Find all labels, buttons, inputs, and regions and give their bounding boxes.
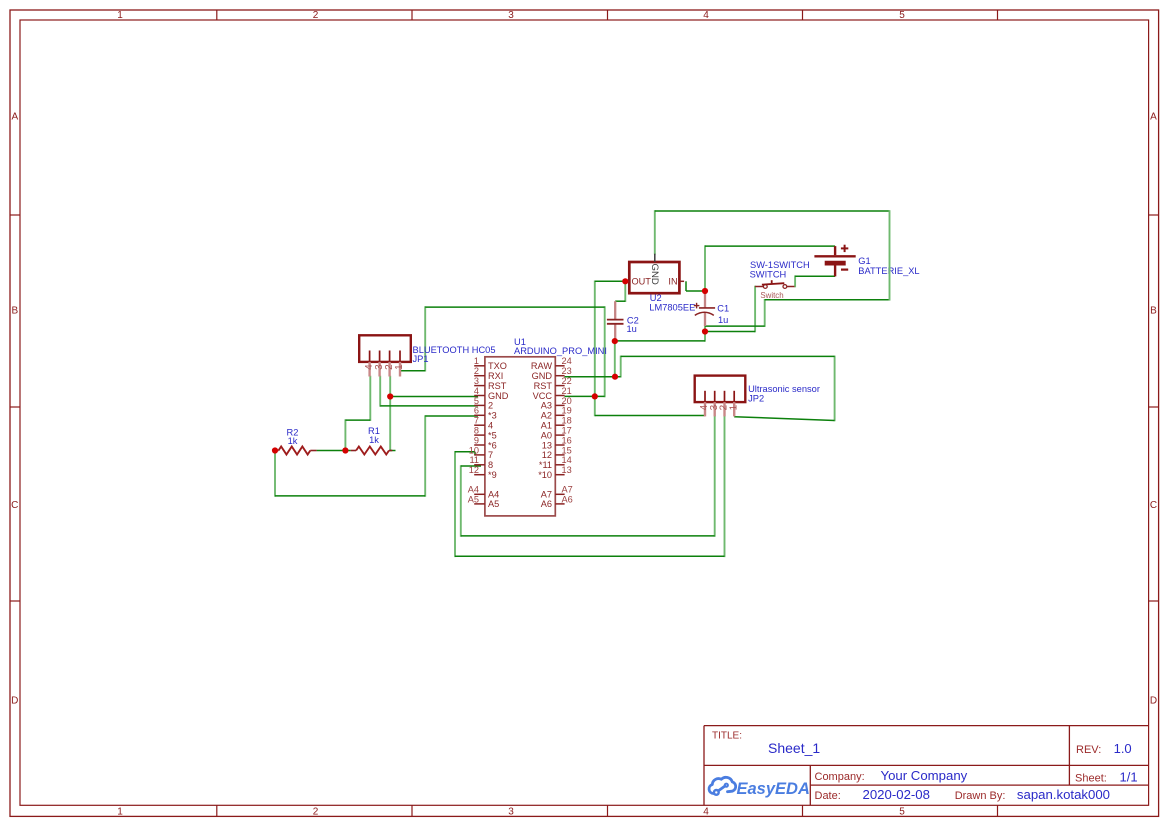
svg-text:1k: 1k [369,435,379,445]
svg-text:JP2: JP2 [748,394,764,404]
svg-text:IN: IN [668,277,677,287]
svg-text:RXI: RXI [488,371,503,381]
svg-text:A7: A7 [562,485,573,495]
svg-text:A0: A0 [541,430,552,440]
svg-text:A1: A1 [541,421,552,431]
svg-text:*5: *5 [488,430,497,440]
svg-text:5: 5 [474,396,479,406]
svg-text:sapan.kotak000: sapan.kotak000 [1017,787,1110,802]
svg-text:1: 1 [474,356,479,366]
svg-text:Drawn By:: Drawn By: [955,790,1006,802]
svg-text:2: 2 [313,807,319,818]
svg-text:1: 1 [117,10,123,21]
svg-text:3: 3 [508,807,514,818]
svg-text:3: 3 [508,10,514,21]
svg-text:21: 21 [562,386,572,396]
svg-text:2: 2 [474,366,479,376]
svg-text:1u: 1u [718,315,728,325]
svg-text:D: D [11,696,18,707]
svg-text:17: 17 [562,426,572,436]
svg-text:3: 3 [474,376,479,386]
svg-text:15: 15 [562,445,572,455]
svg-text:Ultrasonic sensor: Ultrasonic sensor [748,384,820,394]
svg-text:7: 7 [488,450,493,460]
svg-text:12: 12 [469,465,479,475]
svg-text:VCC: VCC [533,391,553,401]
svg-text:A3: A3 [541,401,552,411]
svg-text:D: D [1150,696,1157,707]
svg-text:16: 16 [562,435,572,445]
svg-text:5: 5 [899,10,905,21]
svg-text:1u: 1u [627,324,637,334]
svg-text:*3: *3 [488,411,497,421]
svg-text:24: 24 [562,356,572,366]
svg-text:1/1: 1/1 [1120,769,1138,784]
svg-text:1.0: 1.0 [1114,741,1132,756]
svg-text:2: 2 [313,10,319,21]
svg-text:13: 13 [562,465,572,475]
svg-text:RST: RST [488,381,507,391]
svg-text:EasyEDA: EasyEDA [737,780,810,798]
svg-text:23: 23 [562,366,572,376]
svg-text:8: 8 [474,426,479,436]
svg-text:A5: A5 [468,494,479,504]
svg-text:RST: RST [534,381,553,391]
svg-text:1: 1 [394,364,405,370]
svg-text:7: 7 [474,416,479,426]
svg-text:A5: A5 [488,499,499,509]
svg-text:A: A [1150,112,1157,123]
svg-text:4: 4 [474,386,479,396]
svg-text:*6: *6 [488,440,497,450]
svg-text:G1: G1 [858,256,870,266]
svg-text:*11: *11 [539,460,552,470]
svg-text:B: B [1150,306,1157,317]
svg-text:REV:: REV: [1076,744,1101,756]
svg-text:C: C [11,500,18,511]
svg-text:20: 20 [562,396,572,406]
svg-text:A4: A4 [488,490,499,500]
svg-text:*10: *10 [538,470,552,480]
svg-text:TITLE:: TITLE: [712,731,742,742]
svg-text:ARDUINO_PRO_MINI: ARDUINO_PRO_MINI [514,346,607,356]
svg-text:1: 1 [117,807,123,818]
svg-text:SW-1SWITCH: SW-1SWITCH [750,260,810,270]
svg-text:Date:: Date: [815,790,841,802]
svg-text:9: 9 [474,435,479,445]
svg-text:A2: A2 [541,411,552,421]
svg-text:*9: *9 [488,470,497,480]
svg-text:GND: GND [649,264,660,285]
svg-text:22: 22 [562,376,572,386]
svg-text:13: 13 [542,440,552,450]
svg-text:6: 6 [474,406,479,416]
svg-text:18: 18 [562,416,572,426]
svg-text:A4: A4 [468,485,479,495]
svg-text:4: 4 [488,421,493,431]
svg-text:JP1: JP1 [413,354,429,364]
svg-text:8: 8 [488,460,493,470]
svg-text:2: 2 [488,401,493,411]
svg-text:GND: GND [488,391,509,401]
svg-text:LM7805EE: LM7805EE [649,302,695,312]
svg-text:12: 12 [542,450,552,460]
svg-text:RAW: RAW [531,361,552,371]
svg-text:A6: A6 [562,494,573,504]
svg-text:Company:: Company: [815,771,865,783]
svg-text:GND: GND [532,371,553,381]
svg-text:Switch: Switch [760,291,783,300]
svg-text:C: C [1150,500,1157,511]
svg-text:A7: A7 [541,490,552,500]
svg-text:Sheet:: Sheet: [1075,772,1107,784]
svg-text:OUT: OUT [632,277,652,287]
svg-text:11: 11 [469,455,479,465]
svg-text:5: 5 [899,807,905,818]
svg-text:14: 14 [562,455,572,465]
svg-text:B: B [11,306,18,317]
svg-text:19: 19 [562,406,572,416]
svg-text:C1: C1 [717,304,729,314]
svg-text:2: 2 [384,364,395,370]
svg-text:10: 10 [469,445,479,455]
svg-text:A: A [11,112,18,123]
svg-text:4: 4 [703,807,709,818]
svg-text:4: 4 [703,10,709,21]
svg-text:SWITCH: SWITCH [750,270,787,280]
svg-text:Your Company: Your Company [881,768,968,783]
svg-text:2020-02-08: 2020-02-08 [863,787,930,802]
svg-text:1: 1 [728,404,739,410]
svg-text:TXO: TXO [488,361,507,371]
svg-text:Sheet_1: Sheet_1 [768,740,820,756]
svg-text:A6: A6 [541,499,552,509]
svg-text:1k: 1k [288,436,298,446]
